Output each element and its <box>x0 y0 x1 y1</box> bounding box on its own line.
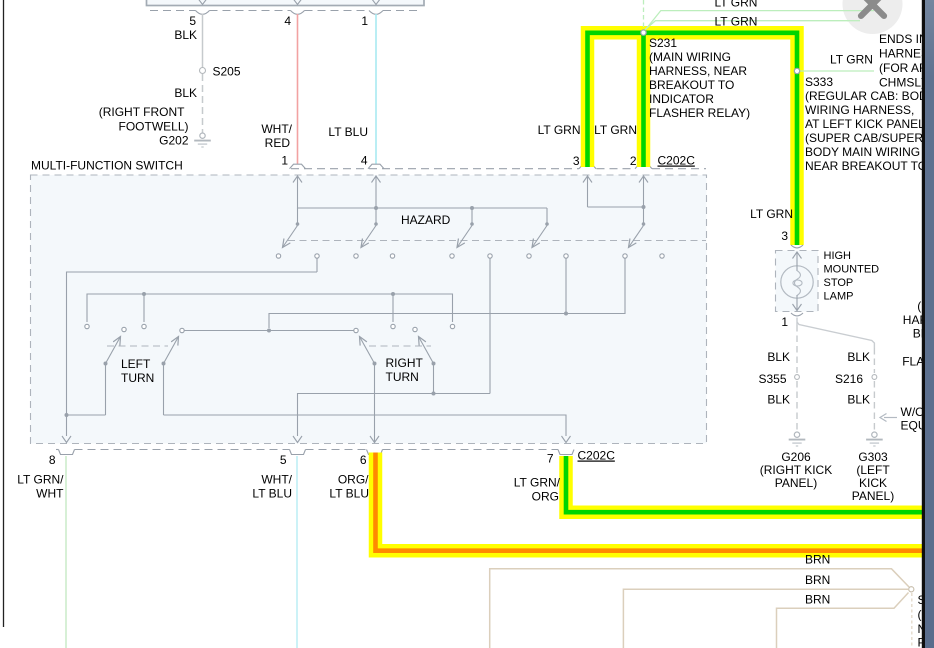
wire pin6 drop <box>374 364 376 444</box>
svg-text:C202C: C202C <box>658 154 696 168</box>
hazard switch blades <box>283 226 298 248</box>
wire BLK S205 to G202 <box>202 74 204 133</box>
svg-text:(SUPER CAB/SUPER CA: (SUPER CAB/SUPER CA <box>805 131 934 145</box>
svg-text:BLK: BLK <box>174 86 197 100</box>
ground G206 <box>794 432 799 437</box>
svg-text:WIRING HARNESS,: WIRING HARNESS, <box>805 103 914 117</box>
svg-text:1: 1 <box>281 154 288 168</box>
multi-function switch box <box>31 175 707 444</box>
wire LT GRN thin from S333 <box>800 70 874 72</box>
svg-text:LT GRN: LT GRN <box>750 207 793 221</box>
splice S205 <box>200 68 206 74</box>
svg-text:LT GRN/: LT GRN/ <box>514 476 561 490</box>
close button <box>843 0 903 34</box>
svg-text:8: 8 <box>49 453 56 467</box>
node turn bus lower <box>269 258 625 328</box>
filament <box>795 271 801 296</box>
connector C202C bottom row <box>56 449 59 451</box>
svg-text:G202: G202 <box>159 134 189 148</box>
wire <box>198 0 207 5</box>
svg-text:ORG: ORG <box>532 490 559 504</box>
wire LT GRN highlighted circuit <box>588 33 798 245</box>
svg-text:HIGH: HIGH <box>824 250 852 262</box>
wire pin1 to S216 <box>797 322 874 348</box>
lamp out arrow <box>796 295 798 311</box>
wire S216 to G303 <box>873 381 875 431</box>
svg-text:BRN: BRN <box>805 593 830 607</box>
node pin7 bus <box>67 414 106 416</box>
svg-text:BLK: BLK <box>767 350 790 364</box>
svg-text:(RIGHT FRONT: (RIGHT FRONT <box>99 105 185 119</box>
svg-text:S333: S333 <box>805 75 833 89</box>
svg-text:C202C: C202C <box>578 449 616 463</box>
svg-text:CHMSL): CHMSL) <box>879 76 925 90</box>
svg-text:LT GRN: LT GRN <box>715 0 758 10</box>
high mounted stop lamp box <box>776 251 819 312</box>
pin 1 lamp <box>791 313 803 316</box>
svg-text:ORG/: ORG/ <box>338 473 369 487</box>
node pins 3-2 bus <box>588 206 644 208</box>
svg-text:KICK: KICK <box>859 476 887 490</box>
svg-text:(RIGHT KICK: (RIGHT KICK <box>760 463 832 477</box>
svg-text:HAZARD: HAZARD <box>401 213 451 227</box>
right turn blades <box>360 337 375 364</box>
node pin5 bus <box>298 394 491 437</box>
wire LT GRN thin 2 <box>645 21 897 30</box>
splice S216 <box>872 375 877 380</box>
coupling dashed left <box>107 345 168 347</box>
splice S355 <box>795 375 800 380</box>
svg-text:MULTI-FUNCTION SWITCH: MULTI-FUNCTION SWITCH <box>31 159 183 173</box>
ground G202 <box>200 133 205 138</box>
svg-text:BLK: BLK <box>847 350 870 364</box>
svg-text:TURN: TURN <box>121 371 154 385</box>
wire LT GRN thin 1 <box>646 11 900 29</box>
svg-text:NEAR BREAKOUT TO: NEAR BREAKOUT TO <box>805 159 927 173</box>
wire BRN 2 <box>623 589 908 648</box>
svg-text:LT GRN/: LT GRN/ <box>17 473 64 487</box>
ground G303 <box>872 432 877 437</box>
svg-text:BODY MAIN WIRING HA: BODY MAIN WIRING HA <box>805 145 934 159</box>
hazard blade pivots <box>296 222 300 226</box>
svg-text:PANEL): PANEL) <box>852 489 894 503</box>
svg-text:6: 6 <box>360 453 367 467</box>
svg-text:RED: RED <box>265 136 291 150</box>
svg-text:FLASHER RELAY): FLASHER RELAY) <box>649 106 750 120</box>
svg-text:LEFT: LEFT <box>121 357 151 371</box>
svg-text:1: 1 <box>781 315 788 329</box>
svg-text:PANEL): PANEL) <box>775 476 817 490</box>
svg-text:BLK: BLK <box>847 393 870 407</box>
wire WHT/LT BLU <box>296 456 298 648</box>
svg-text:G206: G206 <box>781 450 811 464</box>
svg-text:LT GRN: LT GRN <box>538 123 581 137</box>
svg-text:WHT: WHT <box>36 487 64 501</box>
wire LT GRN/ORG highlighted <box>566 456 922 512</box>
svg-text:LT BLU: LT BLU <box>328 125 368 139</box>
hazard feed arrows pins 1,4 <box>297 176 299 209</box>
wire <box>3 0 5 627</box>
connector block top <box>147 0 425 6</box>
svg-text:BRN: BRN <box>805 573 830 587</box>
splice bottom right <box>909 587 914 592</box>
svg-text:BRN: BRN <box>805 553 830 567</box>
hazard coupling dashed <box>288 240 706 242</box>
wire BRN 3 <box>777 593 909 648</box>
wire LT BLU <box>375 14 377 164</box>
svg-text:LT BLU: LT BLU <box>329 487 369 501</box>
connector C-top pins <box>150 10 196 12</box>
svg-text:TURN: TURN <box>386 370 419 384</box>
svg-text:BLK: BLK <box>767 393 790 407</box>
svg-text:1: 1 <box>361 14 368 28</box>
svg-text:HARNESS, NEAR: HARNESS, NEAR <box>649 64 747 78</box>
svg-text:(LEFT: (LEFT <box>856 463 890 477</box>
wire S355 to G206 <box>796 381 798 431</box>
wire contact stubs <box>316 258 318 272</box>
connector C202C top row <box>291 168 579 170</box>
sidebar <box>922 0 925 648</box>
svg-text:G303: G303 <box>858 450 888 464</box>
svg-text:(MAIN WIRING: (MAIN WIRING <box>649 50 731 64</box>
svg-text:7: 7 <box>547 452 554 466</box>
wire WHT/RED <box>297 14 299 164</box>
svg-text:5: 5 <box>189 14 196 28</box>
wire LT GRN/WHT <box>65 456 67 648</box>
wire pin8 riser <box>67 272 318 436</box>
node hazard bus <box>298 207 548 209</box>
coupling dashed right <box>369 345 431 347</box>
wire BRN 1 <box>490 569 910 648</box>
svg-text:LT GRN: LT GRN <box>594 123 637 137</box>
svg-text:BREAKOUT TO: BREAKOUT TO <box>649 78 734 92</box>
lamp feed arrow <box>793 252 802 259</box>
node turn bus upper <box>87 294 453 322</box>
svg-text:AT LEFT KICK PANEL): AT LEFT KICK PANEL) <box>805 117 929 131</box>
left turn blades <box>106 337 121 364</box>
pin cups <box>59 450 75 455</box>
wire ORG/LT BLU highlighted <box>376 453 923 551</box>
wire BLK pin5 to S205 <box>202 14 204 68</box>
svg-text:LAMP: LAMP <box>824 291 854 303</box>
svg-text:(REGULAR CAB: BODY: (REGULAR CAB: BODY <box>805 89 934 103</box>
svg-text:3: 3 <box>573 154 580 168</box>
svg-text:BLK: BLK <box>174 28 197 42</box>
svg-text:LT BLU: LT BLU <box>252 487 292 501</box>
svg-text:2: 2 <box>630 154 637 168</box>
svg-text:WHT/: WHT/ <box>261 122 292 136</box>
svg-text:LT GRN: LT GRN <box>715 15 758 29</box>
splice S231 <box>641 30 646 35</box>
svg-text:MOUNTED: MOUNTED <box>824 264 880 276</box>
svg-text:RIGHT: RIGHT <box>386 356 424 370</box>
svg-text:S216: S216 <box>835 372 863 386</box>
wire tan dashed drop <box>911 593 913 648</box>
splice S333 <box>794 68 799 73</box>
svg-text:ENDS IN: ENDS IN <box>879 32 928 46</box>
svg-text:4: 4 <box>284 14 291 28</box>
svg-text:LT GRN: LT GRN <box>830 53 873 67</box>
svg-text:STOP: STOP <box>824 277 854 289</box>
svg-text:4: 4 <box>361 154 368 168</box>
hazard feed arrows pins 3,2 <box>587 176 589 208</box>
svg-text:WHT/: WHT/ <box>261 473 292 487</box>
svg-text:S231: S231 <box>649 36 677 50</box>
lamp bulb <box>781 266 813 298</box>
arrow W/O pointer <box>884 417 897 419</box>
svg-text:3: 3 <box>781 229 788 243</box>
svg-text:FOOTWELL): FOOTWELL) <box>118 120 188 134</box>
svg-text:5: 5 <box>280 453 287 467</box>
svg-text:INDICATOR: INDICATOR <box>649 92 714 106</box>
turn contact row <box>182 330 356 332</box>
wire pin1 to S355 <box>796 318 798 326</box>
hazard contacts <box>276 254 280 258</box>
wire LT GRN dashed feeder <box>643 0 645 27</box>
svg-text:S205: S205 <box>213 65 241 79</box>
svg-text:S355: S355 <box>758 372 786 386</box>
wire pivot drops <box>105 364 107 416</box>
